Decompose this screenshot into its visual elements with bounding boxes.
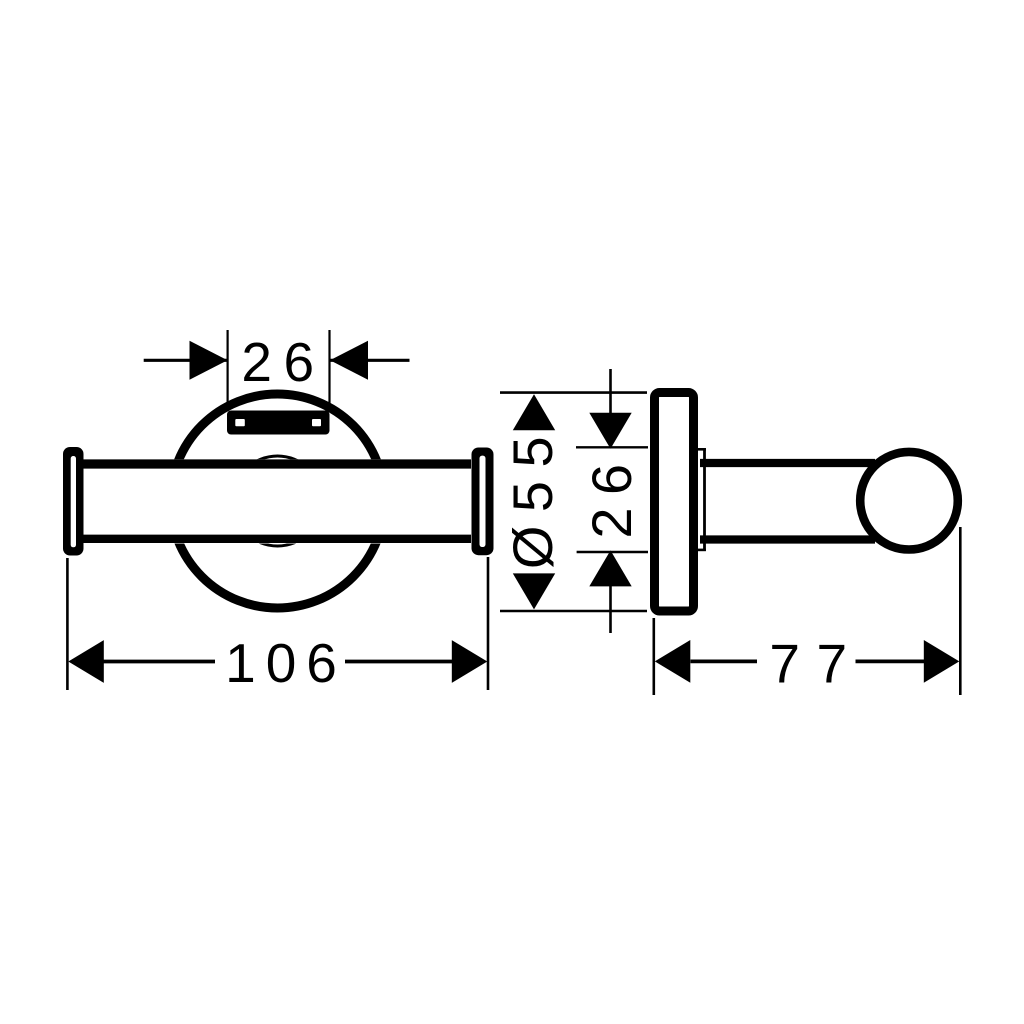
right end cap slot: [480, 456, 486, 547]
dim Ø55: bottom extension line: [500, 610, 647, 613]
dim 77: left arrow: [655, 640, 691, 683]
dim 26 side: upper dim line: [609, 369, 612, 447]
bar body (white, masks circles): [83, 459, 471, 543]
bar bottom line: [83, 535, 471, 543]
dim 26 top: left extension line: [227, 330, 229, 411]
dim 26 side: bottom arrow: [589, 550, 631, 586]
collar bottom edge: [698, 549, 706, 552]
svg-text:Ø55: Ø55: [501, 423, 564, 569]
slot screw hole left: [235, 419, 245, 426]
dim Ø55: top arrow: [513, 394, 555, 430]
dim 77: right segment: [856, 660, 925, 664]
rosette circle (front view wall plate): [171, 394, 385, 608]
right end cap: [472, 448, 494, 556]
hub circle (mounting collar, front view): [233, 456, 323, 546]
dim 26 side: top arrow: [589, 413, 631, 449]
slot screw hole right: [312, 419, 321, 426]
left end cap: [63, 447, 84, 556]
dim 26 side: lower dim line: [609, 552, 612, 633]
dim 26 top: right extension line: [328, 330, 330, 411]
svg-text:26: 26: [241, 331, 325, 393]
collar (side view) right edge: [703, 448, 706, 551]
dim 106: left arrow: [68, 640, 104, 683]
mounting slot: [227, 411, 330, 435]
dim 106: left extension line: [66, 558, 69, 690]
dim 26 side: bottom extension line: [577, 551, 648, 553]
dim 106: right segment: [345, 660, 452, 664]
dim 26 top: right arrow: [330, 341, 368, 380]
left end cap slot: [71, 456, 76, 547]
svg-text:106: 106: [225, 632, 347, 694]
wall plate (side view): [655, 393, 694, 612]
ball end: [860, 452, 958, 550]
dim 106: right extension line: [487, 557, 490, 690]
dim 77: left extension line: [652, 618, 655, 695]
collar top edge: [698, 448, 706, 451]
bar top line: [83, 459, 471, 468]
dim 26 top: left leader line: [144, 359, 227, 362]
dim 77: right arrow: [924, 640, 960, 683]
rod top line: [700, 459, 875, 467]
dim 26 side: top extension line: [576, 446, 648, 448]
dim 106: left segment: [104, 660, 216, 664]
dim Ø55: top extension line: [500, 391, 647, 394]
dim 77: right extension line: [959, 527, 962, 695]
dim 26 top: right leader line: [330, 359, 410, 362]
svg-text:26: 26: [580, 451, 643, 538]
dim 106: right arrow: [452, 640, 488, 683]
rod bottom line: [700, 535, 875, 543]
svg-text:77: 77: [769, 633, 863, 695]
dim Ø55: bottom arrow: [513, 573, 555, 609]
dim 77: left segment: [691, 660, 758, 664]
dim 26 top: left arrow: [190, 341, 228, 380]
